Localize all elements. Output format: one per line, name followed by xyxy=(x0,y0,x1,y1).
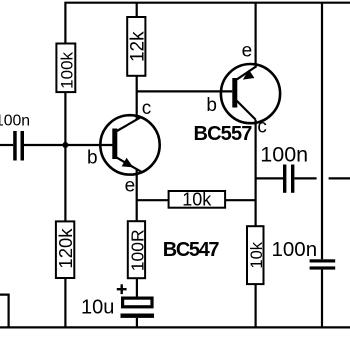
wire BC547 emitter down xyxy=(136,169,138,221)
capacitor C 100n right plates xyxy=(283,165,294,193)
svg-text:120k: 120k xyxy=(55,228,76,269)
node input junction dot xyxy=(62,142,68,148)
wire node to BC557 base xyxy=(137,90,233,92)
wire right rail lower xyxy=(321,270,323,328)
wire left column bottom xyxy=(64,278,66,327)
svg-text:b: b xyxy=(87,147,98,168)
svg-text:100n: 100n xyxy=(260,142,308,166)
polarity plus sign xyxy=(117,284,127,294)
resistor R 100k body xyxy=(56,44,75,93)
capacitor C 100n input plates xyxy=(13,131,24,161)
svg-text:e: e xyxy=(242,41,253,62)
wire 12k bottom to collector xyxy=(136,76,138,119)
svg-text:100n: 100n xyxy=(0,113,30,130)
transistor Q2 BC557 xyxy=(221,64,280,123)
wire right rail upper xyxy=(321,3,323,260)
resistor R 120k body xyxy=(56,221,74,278)
wire BC557 emitter up xyxy=(255,3,257,67)
wire collector to 100n right xyxy=(256,177,283,179)
svg-text:e: e xyxy=(125,175,136,196)
svg-text:12k: 12k xyxy=(128,31,149,62)
capacitor C 100n bottom right plates xyxy=(310,259,336,269)
svg-text:100n: 100n xyxy=(272,238,318,261)
wire input left xyxy=(0,144,13,146)
resistor R 100R body xyxy=(128,221,145,278)
svg-text:BC557: BC557 xyxy=(194,123,253,145)
svg-text:c: c xyxy=(142,98,152,119)
svg-text:100k: 100k xyxy=(57,51,76,88)
resistor R 10k vertical body xyxy=(247,226,264,284)
transistor Q1 BC547 xyxy=(100,115,159,174)
svg-text:10u: 10u xyxy=(81,296,114,318)
resistor R 10k horizontal body xyxy=(169,191,226,208)
svg-text:BC547: BC547 xyxy=(163,239,220,261)
svg-text:b: b xyxy=(206,95,217,116)
connector box bottom left xyxy=(0,295,9,328)
wire input to base xyxy=(24,144,113,146)
resistor R 12k body xyxy=(127,17,145,76)
wire 10k vert bottom xyxy=(255,284,257,327)
wire bottom rail xyxy=(0,326,350,328)
svg-text:100R: 100R xyxy=(128,229,148,271)
capacitor C 10u electrolytic xyxy=(121,298,155,318)
wire 100n right off edge xyxy=(329,177,350,179)
svg-text:c: c xyxy=(257,116,267,137)
wire 100n right to rail gap xyxy=(294,177,316,179)
svg-text:10k: 10k xyxy=(248,241,266,268)
wire BC557 collector down xyxy=(255,120,257,226)
wire left column mid xyxy=(64,92,66,221)
wire 10k to collector column xyxy=(225,199,256,201)
wire 12k top xyxy=(136,3,138,17)
svg-text:10k: 10k xyxy=(182,190,212,210)
wire emitter to 10k xyxy=(137,199,169,201)
wire top rail xyxy=(65,3,350,44)
wire 10u to ground xyxy=(136,318,138,328)
wire 100R to 10u xyxy=(136,278,138,297)
